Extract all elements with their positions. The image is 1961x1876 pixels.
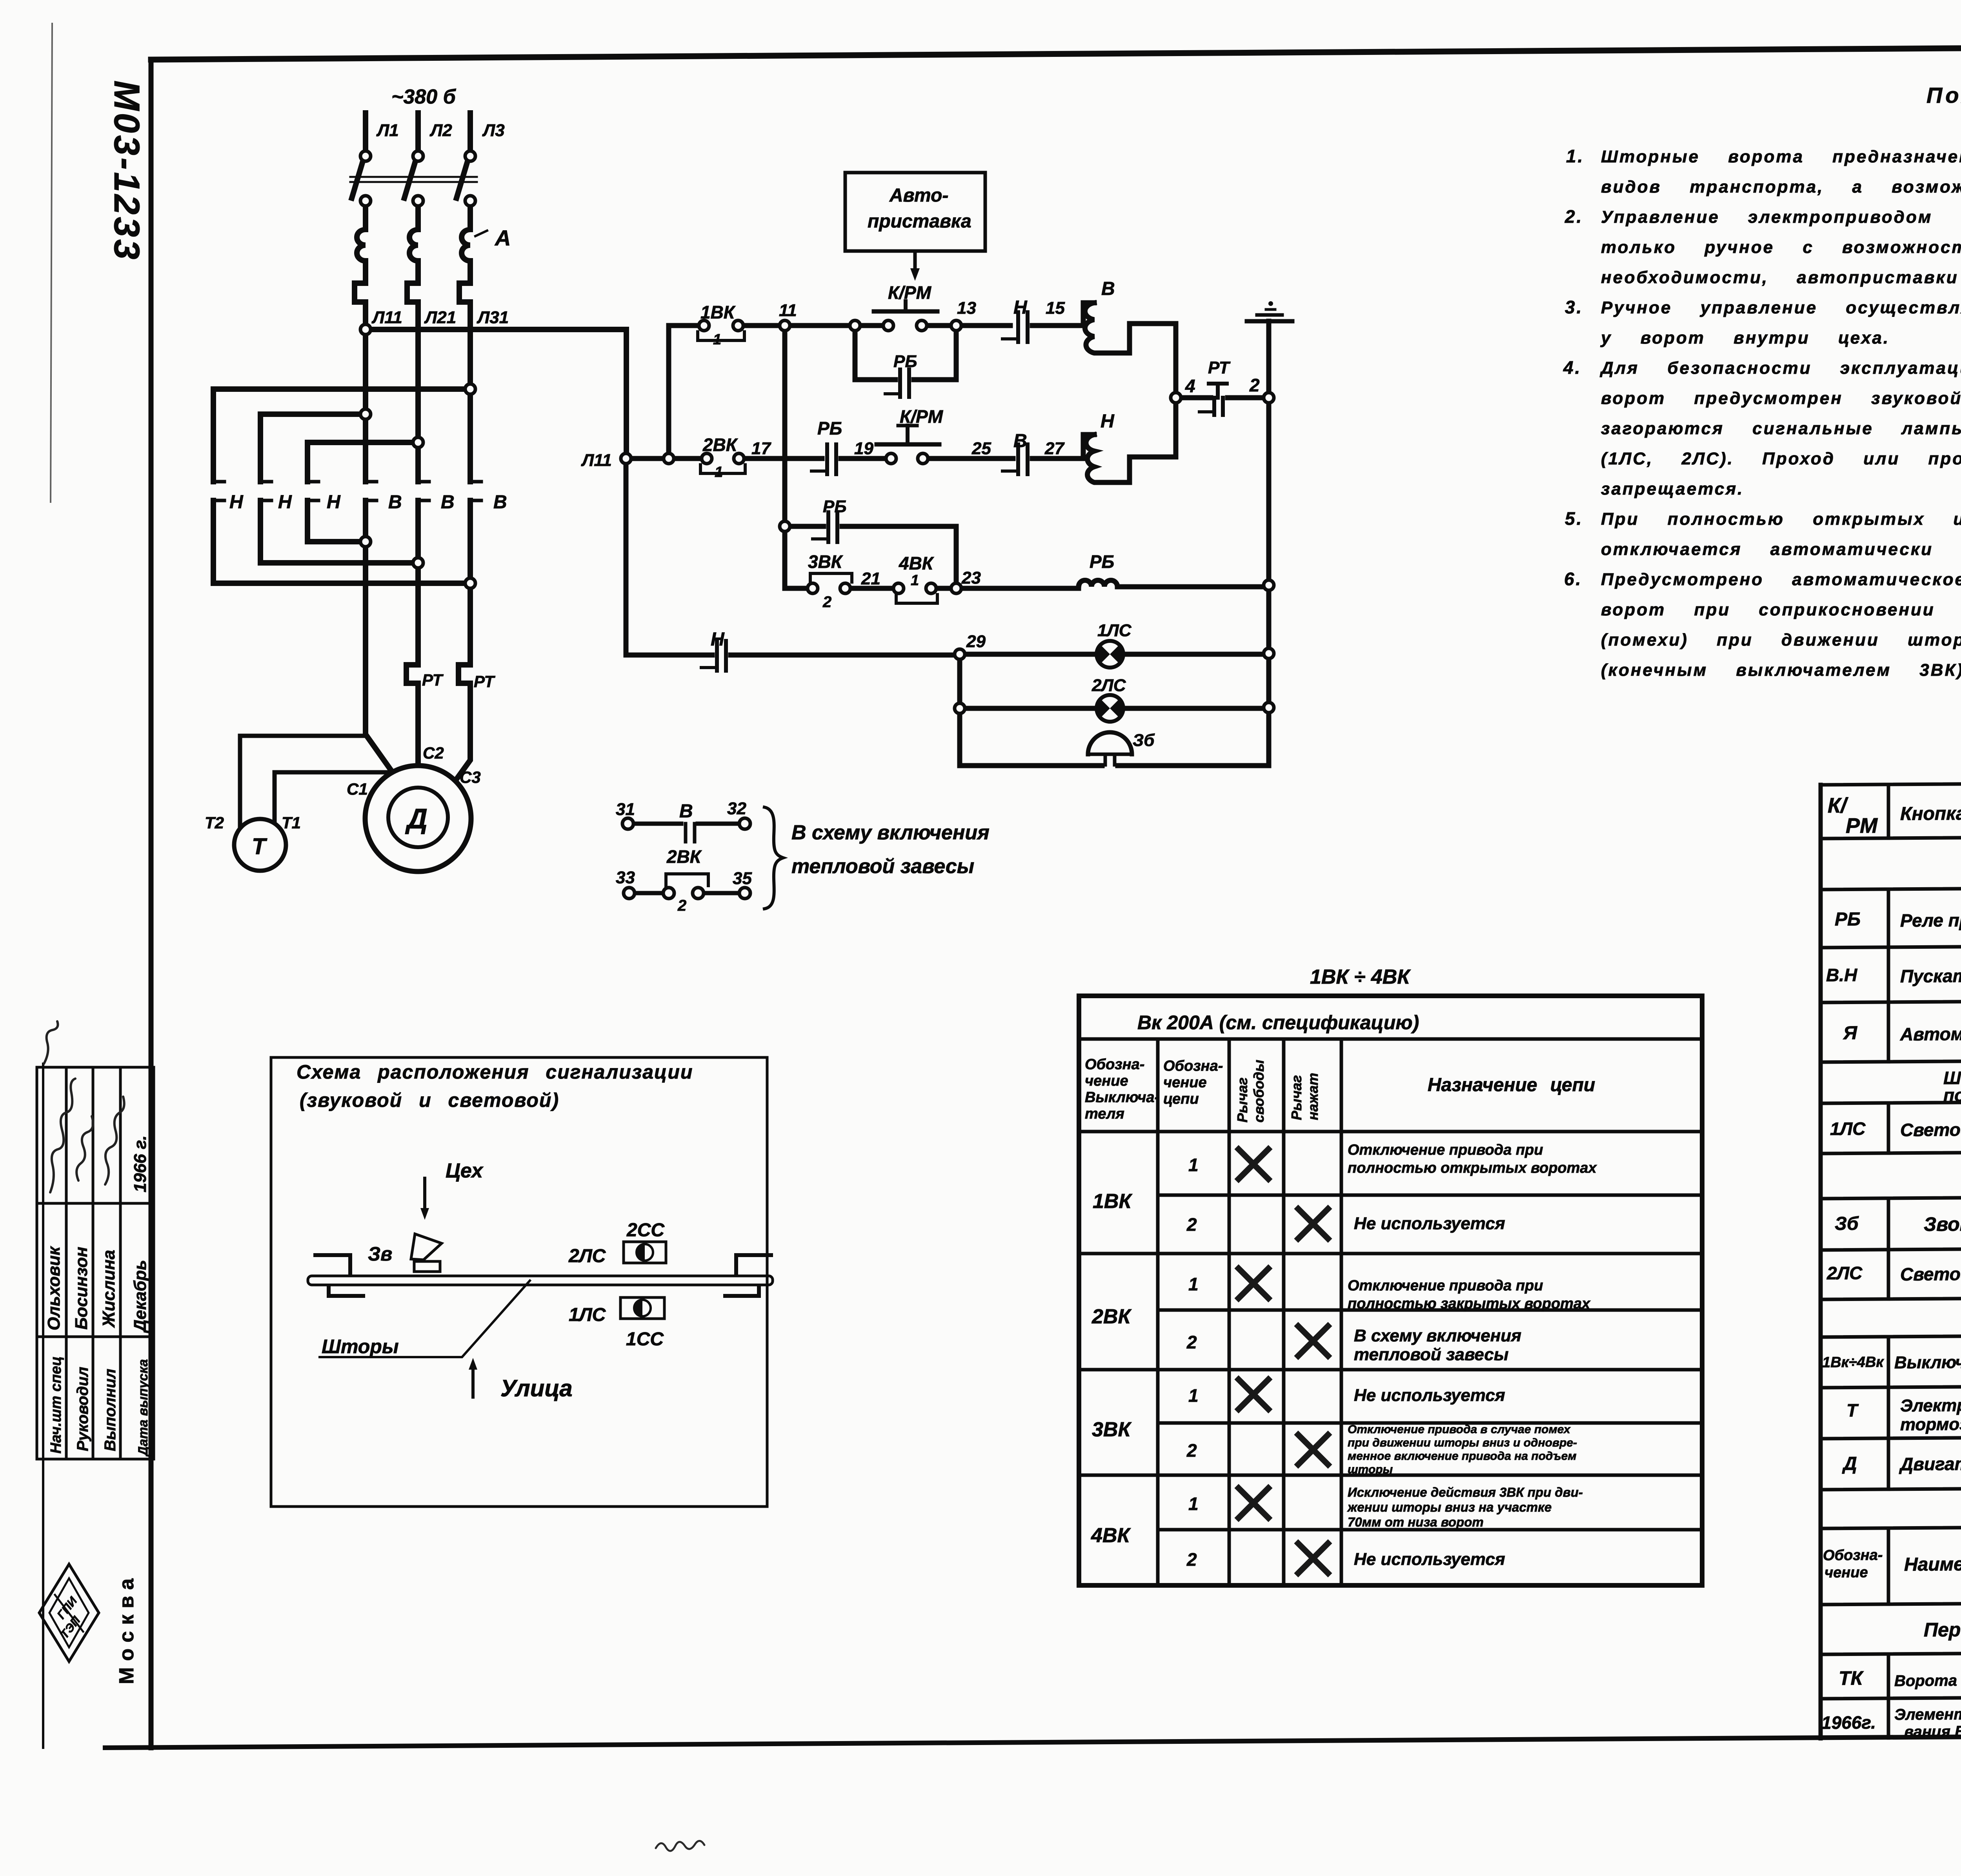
svg-text:видов транспорта, а возможно: видов транспорта, а возможно и групп люд… <box>1601 177 1961 197</box>
svg-text:Зб: Зб <box>1133 731 1155 750</box>
svg-text:2: 2 <box>677 897 686 914</box>
svg-text:(помехи) при движении шторы: (помехи) при движении шторы вниз до 70 м… <box>1601 630 1961 650</box>
svg-text:Обозна-: Обозна- <box>1085 1056 1144 1073</box>
svg-text:Обозна-: Обозна- <box>1823 1547 1883 1564</box>
svg-text:Перечень электрооборудования: Перечень электрооборудования <box>1924 1617 1961 1641</box>
svg-text:А: А <box>494 226 511 250</box>
svg-text:Л3: Л3 <box>482 121 505 140</box>
svg-text:1.: 1. <box>1566 146 1584 166</box>
svg-text:Л11: Л11 <box>371 308 402 327</box>
svg-text:Цех: Цех <box>446 1159 484 1182</box>
svg-text:чение: чение <box>1085 1073 1128 1089</box>
svg-text:Выполнил: Выполнил <box>102 1369 119 1451</box>
svg-text:Рычаг: Рычаг <box>1288 1075 1304 1120</box>
svg-text:6.: 6. <box>1564 569 1582 589</box>
svg-text:М03-1233: М03-1233 <box>107 80 147 262</box>
svg-text:В: В <box>1101 278 1115 299</box>
svg-text:17: 17 <box>751 439 771 458</box>
svg-text:РТ: РТ <box>422 671 444 689</box>
svg-text:Руководил: Руководил <box>74 1367 91 1451</box>
svg-text:Л11: Л11 <box>581 451 612 470</box>
svg-text:В схему включения: В схему включения <box>791 821 990 844</box>
svg-text:1СС: 1СС <box>626 1329 664 1350</box>
svg-text:Отключение привода при: Отключение привода при <box>1348 1142 1543 1158</box>
svg-text:2: 2 <box>822 593 831 611</box>
svg-text:В: В <box>493 492 507 513</box>
svg-text:13: 13 <box>957 298 976 318</box>
svg-text:Т: Т <box>252 834 267 859</box>
svg-text:2ЛС: 2ЛС <box>1091 676 1126 695</box>
svg-text:4: 4 <box>1185 376 1195 396</box>
svg-text:Я: Я <box>1843 1023 1857 1043</box>
svg-text:Ворота шторные с автоматически: Ворота шторные с автоматическим управлен… <box>1894 1670 1961 1690</box>
svg-text:РБ: РБ <box>1090 551 1114 572</box>
svg-text:2: 2 <box>1186 1214 1197 1235</box>
svg-text:Не используется: Не используется <box>1354 1386 1505 1405</box>
svg-text:3ВК: 3ВК <box>808 551 843 572</box>
svg-text:цепи: цепи <box>1163 1091 1199 1107</box>
svg-text:Вк 200А (см. спецификацию): Вк 200А (см. спецификацию) <box>1137 1012 1419 1034</box>
svg-text:Отключение привода в случае по: Отключение привода в случае помех <box>1348 1423 1571 1436</box>
svg-text:Автомат: Автомат <box>1900 1023 1961 1044</box>
svg-text:Звонок: Звонок <box>1924 1213 1961 1235</box>
svg-text:Ручное управление осуществля: Ручное управление осуществляется кнопкой… <box>1601 298 1961 317</box>
svg-text:Москва: Москва <box>115 1572 138 1684</box>
svg-text:При полностью открытых или: При полностью открытых или закрытых воро… <box>1601 509 1961 529</box>
svg-text:Зб: Зб <box>1835 1213 1859 1234</box>
svg-text:Светофор: Светофор <box>1900 1119 1961 1140</box>
svg-text:Электромагнит: Электромагнит <box>1900 1396 1961 1416</box>
svg-text:В: В <box>388 492 402 513</box>
svg-text:4ВК: 4ВК <box>1091 1524 1131 1547</box>
svg-text:Выключатель конечный: Выключатель конечный <box>1894 1352 1961 1372</box>
svg-text:С3: С3 <box>460 768 481 786</box>
svg-text:Элементная схема и перечень эл: Элементная схема и перечень электрообору… <box>1894 1704 1961 1723</box>
svg-text:Н: Н <box>1101 411 1115 432</box>
svg-text:(1ЛС, 2ЛС). Проход или проез: (1ЛС, 2ЛС). Проход или проезд через воро… <box>1601 449 1961 468</box>
svg-text:запрещается.: запрещается. <box>1601 479 1744 499</box>
svg-text:33: 33 <box>616 868 635 887</box>
svg-text:свободы: свободы <box>1251 1060 1267 1123</box>
svg-text:2.: 2. <box>1564 206 1583 227</box>
svg-text:Светофор: Светофор <box>1900 1263 1961 1284</box>
svg-text:шторы: шторы <box>1348 1463 1393 1476</box>
svg-text:2: 2 <box>1249 375 1260 395</box>
svg-text:25: 25 <box>971 439 991 458</box>
svg-text:5.: 5. <box>1565 508 1583 529</box>
svg-text:жении шторы вниз на участке: жении шторы вниз на участке <box>1347 1500 1552 1514</box>
svg-text:1ЛС: 1ЛС <box>569 1305 606 1325</box>
svg-text:В: В <box>1013 431 1027 451</box>
svg-text:нажат: нажат <box>1305 1073 1321 1120</box>
svg-text:Двигатель: Двигатель <box>1899 1453 1961 1474</box>
svg-text:полностью закрытых воротах: полностью закрытых воротах <box>1348 1296 1591 1312</box>
svg-text:Кнопка управления: Кнопка управления <box>1900 802 1961 824</box>
svg-text:Жислина: Жислина <box>99 1250 118 1328</box>
svg-text:1ВК: 1ВК <box>1093 1190 1132 1213</box>
svg-text:К/РМ: К/РМ <box>900 406 944 427</box>
svg-text:Ольховик: Ольховик <box>44 1246 64 1330</box>
svg-text:ворот при соприкосновении н: ворот при соприкосновении нижней кромки … <box>1601 600 1961 619</box>
svg-text:1ВК: 1ВК <box>700 302 736 322</box>
svg-text:70мм от низа ворот: 70мм от низа ворот <box>1348 1515 1484 1529</box>
svg-text:по чертежу В38-2000: по чертежу В38-2000 <box>1943 1084 1961 1105</box>
svg-text:4.: 4. <box>1563 357 1581 378</box>
svg-text:1: 1 <box>1188 1155 1199 1175</box>
svg-text:2ЛС: 2ЛС <box>568 1246 606 1266</box>
svg-text:Т2: Т2 <box>205 813 224 832</box>
svg-text:Л1: Л1 <box>376 121 399 140</box>
svg-text:Т1: Т1 <box>282 813 301 832</box>
svg-text:2ВК: 2ВК <box>666 846 702 867</box>
svg-text:31: 31 <box>616 800 635 819</box>
svg-text:Назначение цепи: Назначение цепи <box>1428 1075 1595 1095</box>
svg-text:Для безопасности эксплуатаци: Для безопасности эксплуатации во время з… <box>1599 358 1961 378</box>
svg-text:1966г.: 1966г. <box>1821 1712 1876 1733</box>
svg-text:Авто-: Авто- <box>889 185 948 206</box>
svg-text:1: 1 <box>1188 1385 1199 1406</box>
svg-text:Схема расположения сигнализац: Схема расположения сигнализации <box>297 1061 693 1083</box>
svg-text:1: 1 <box>911 572 919 589</box>
svg-text:2: 2 <box>1186 1332 1197 1352</box>
svg-text:15: 15 <box>1046 298 1065 318</box>
svg-text:Декабрь: Декабрь <box>131 1260 150 1334</box>
svg-text:Пояснения.: Пояснения. <box>1926 83 1961 107</box>
svg-text:РТ: РТ <box>1208 358 1231 377</box>
svg-text:К/РМ: К/РМ <box>888 282 932 303</box>
svg-text:(конечным выключателем 3ВК).: (конечным выключателем 3ВК). <box>1601 661 1961 680</box>
svg-text:1: 1 <box>1188 1494 1199 1514</box>
svg-text:Выключа-: Выключа- <box>1085 1089 1159 1106</box>
svg-text:Дата выпуска: Дата выпуска <box>136 1359 151 1457</box>
svg-text:1ЛС: 1ЛС <box>1830 1118 1866 1139</box>
svg-text:1: 1 <box>1188 1274 1199 1294</box>
svg-text:23: 23 <box>961 568 981 588</box>
svg-text:тепловой завесы: тепловой завесы <box>791 855 974 878</box>
svg-text:РБ: РБ <box>823 497 847 516</box>
svg-text:тепловой завесы: тепловой завесы <box>1354 1345 1508 1364</box>
svg-text:21: 21 <box>861 569 880 588</box>
svg-text:ТК: ТК <box>1839 1667 1864 1689</box>
svg-text:1ВК ÷ 4ВК: 1ВК ÷ 4ВК <box>1310 966 1411 988</box>
svg-text:В: В <box>679 801 693 822</box>
svg-text:Предусмотрено автоматическое: Предусмотрено автоматическое отключение … <box>1601 570 1961 589</box>
svg-text:35: 35 <box>733 869 752 888</box>
svg-text:РБ: РБ <box>817 418 842 439</box>
svg-text:Улица: Улица <box>500 1375 573 1401</box>
svg-text:загораются сигнальные лампы: загораются сигнальные лампы с красными с… <box>1601 419 1961 438</box>
svg-text:чение: чение <box>1163 1074 1207 1091</box>
svg-text:2СС: 2СС <box>626 1220 665 1241</box>
svg-text:вания В38-1000: вания В38-1000 <box>1904 1723 1961 1741</box>
svg-text:Не используется: Не используется <box>1354 1550 1505 1569</box>
svg-text:1966 г.: 1966 г. <box>131 1135 150 1192</box>
svg-text:Босинзон: Босинзон <box>72 1247 91 1330</box>
svg-text:Н: Н <box>711 629 725 650</box>
svg-text:при движении шторы вниз и одно: при движении шторы вниз и одновре- <box>1348 1436 1577 1449</box>
svg-text:4ВК: 4ВК <box>899 553 934 573</box>
svg-text:19: 19 <box>854 439 873 458</box>
svg-text:ворот предусмотрен звуковой: ворот предусмотрен звуковой сигнал (3В) … <box>1601 389 1961 408</box>
svg-text:29: 29 <box>966 632 986 651</box>
svg-text:Рычаг: Рычаг <box>1234 1077 1250 1123</box>
svg-text:В схему включения: В схему включения <box>1354 1326 1521 1345</box>
svg-text:необходимости, автоприставки: необходимости, автоприставки для автомат… <box>1601 268 1961 287</box>
svg-text:1Вк÷4Вк: 1Вк÷4Вк <box>1822 1354 1884 1371</box>
svg-text:2: 2 <box>1186 1440 1197 1461</box>
svg-text:РМ: РМ <box>1846 814 1878 837</box>
svg-text:2: 2 <box>1186 1549 1197 1570</box>
svg-text:32: 32 <box>727 799 746 818</box>
svg-text:Обозна-: Обозна- <box>1163 1058 1223 1074</box>
svg-text:2ВК: 2ВК <box>702 435 738 455</box>
svg-text:отключается автоматически ко: отключается автоматически конечными выкл… <box>1601 540 1961 559</box>
svg-text:С1: С1 <box>347 780 368 798</box>
svg-text:Л31: Л31 <box>477 308 509 327</box>
svg-text:Отключение привода при: Отключение привода при <box>1348 1277 1543 1294</box>
svg-text:у ворот внутри цеха.: у ворот внутри цеха. <box>1600 328 1890 348</box>
svg-text:чение: чение <box>1825 1564 1868 1581</box>
svg-text:теля: теля <box>1085 1106 1124 1122</box>
svg-text:Н: Н <box>327 492 341 513</box>
svg-text:полностью открытых воротах: полностью открытых воротах <box>1348 1160 1597 1176</box>
svg-text:27: 27 <box>1044 439 1065 458</box>
svg-text:Исключение действия 3ВК при дв: Исключение действия 3ВК при дви- <box>1348 1485 1583 1499</box>
svg-text:2ВК: 2ВК <box>1091 1305 1131 1328</box>
svg-text:менное включение привода на по: менное включение привода на подъем <box>1348 1450 1577 1463</box>
svg-text:Нач.шт спец: Нач.шт спец <box>48 1356 64 1454</box>
svg-text:1: 1 <box>715 464 723 480</box>
svg-text:Управление электроприводом: Управление электроприводом шторных ворот… <box>1601 207 1961 227</box>
svg-text:3ВК: 3ВК <box>1092 1418 1131 1441</box>
svg-text:Д: Д <box>1842 1453 1857 1474</box>
svg-text:Пускатель: Пускатель <box>1900 965 1961 986</box>
svg-text:РБ: РБ <box>1835 909 1861 930</box>
svg-text:Реле промежуточное: Реле промежуточное <box>1900 909 1961 931</box>
svg-text:2ЛС: 2ЛС <box>1826 1263 1863 1283</box>
svg-text:Д: Д <box>405 803 427 835</box>
svg-text:Т: Т <box>1846 1400 1859 1420</box>
svg-text:РТ: РТ <box>474 672 495 691</box>
svg-text:Наименование: Наименование <box>1904 1554 1961 1575</box>
svg-text:РБ: РБ <box>893 352 917 371</box>
svg-text:3.: 3. <box>1565 297 1583 317</box>
svg-text:Н: Н <box>1013 297 1028 318</box>
svg-text:только ручное с возможностью: только ручное с возможностью присоединен… <box>1601 238 1961 257</box>
svg-text:тормозной: тормозной <box>1900 1414 1961 1434</box>
svg-text:Не используется: Не используется <box>1354 1214 1505 1233</box>
svg-text:11: 11 <box>779 301 797 320</box>
svg-text:В.Н: В.Н <box>1826 964 1857 985</box>
svg-text:Л2: Л2 <box>429 121 452 140</box>
svg-text:~380 б: ~380 б <box>391 86 457 108</box>
svg-text:В: В <box>441 492 455 513</box>
svg-text:Н: Н <box>278 492 292 513</box>
svg-text:Л21: Л21 <box>424 308 456 327</box>
svg-text:1: 1 <box>713 331 721 348</box>
svg-text:1ЛС: 1ЛС <box>1097 621 1132 640</box>
svg-text:Н: Н <box>229 492 244 513</box>
svg-text:Шторы: Шторы <box>322 1336 399 1357</box>
svg-text:приставка: приставка <box>868 211 971 232</box>
svg-text:Шторные ворота предназначены: Шторные ворота предназначены для пропуск… <box>1601 147 1961 166</box>
svg-text:С2: С2 <box>423 744 444 762</box>
svg-text:Зв: Зв <box>368 1243 392 1265</box>
svg-text:(звуковой и световой): (звуковой и световой) <box>300 1089 559 1111</box>
